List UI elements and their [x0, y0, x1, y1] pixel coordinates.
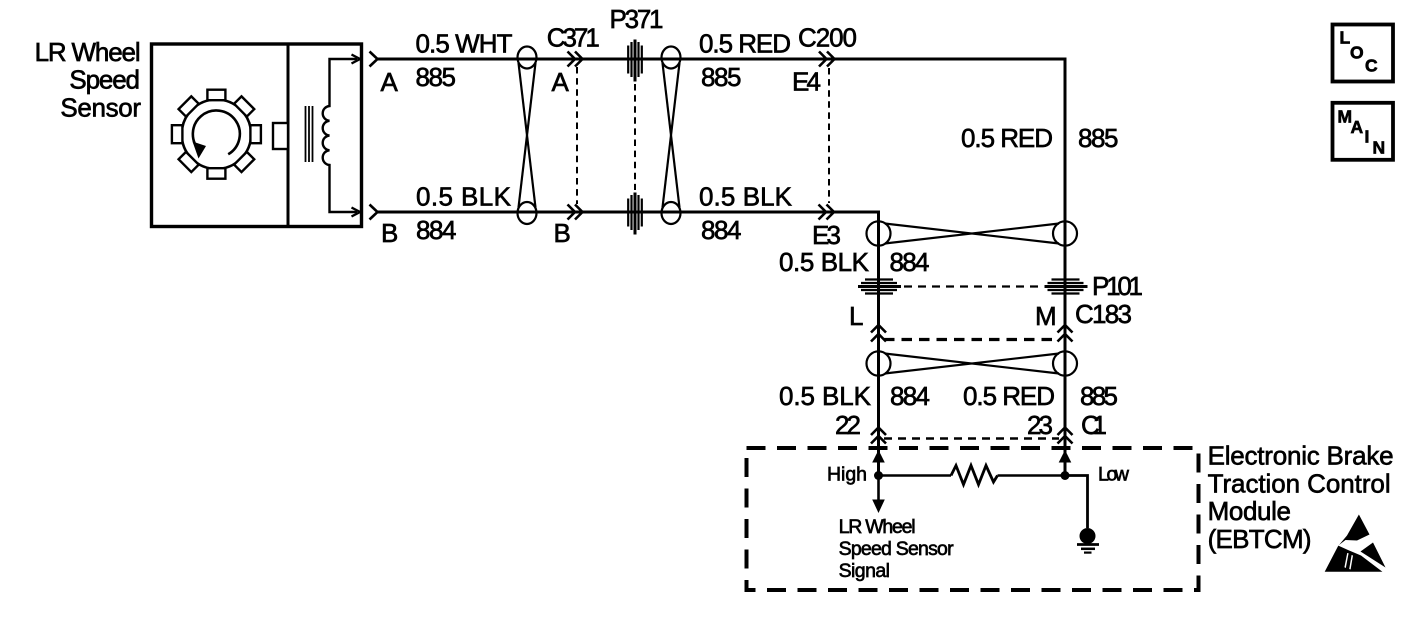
ESD symbol — [1325, 515, 1386, 572]
pickup rectangle — [273, 123, 288, 149]
node High junction dot — [874, 471, 883, 480]
svg-text:LR Wheel: LR Wheel — [839, 516, 916, 538]
wire Low to ground — [1065, 476, 1088, 529]
svg-text:I: I — [1365, 127, 1370, 147]
svg-text:22: 22 — [835, 410, 861, 440]
svg-text:LR Wheel: LR Wheel — [35, 37, 141, 67]
twisted pair symbol 3 (horizontal) — [867, 221, 1078, 245]
svg-text:A: A — [1351, 117, 1364, 137]
rotation arrow arc — [193, 111, 240, 155]
svg-text:0.5 BLK: 0.5 BLK — [699, 182, 793, 212]
svg-text:Sensor: Sensor — [60, 92, 141, 122]
svg-text:Signal: Signal — [839, 560, 890, 582]
chevron at sensor terminal B — [370, 205, 378, 220]
EBTCM dashed box — [747, 448, 1199, 590]
svg-text:Electronic Brake: Electronic Brake — [1208, 441, 1394, 471]
svg-text:885: 885 — [1080, 381, 1118, 411]
C1 dashed line — [884, 437, 1059, 439]
svg-text:885: 885 — [1078, 123, 1119, 153]
svg-text:High: High — [827, 464, 867, 486]
resistor R1 zigzag — [951, 466, 998, 485]
svg-text:(EBTCM): (EBTCM) — [1208, 524, 1312, 554]
connector C200 chevrons E3 — [819, 205, 835, 220]
svg-text:L: L — [849, 301, 863, 331]
svg-text:P371: P371 — [610, 4, 664, 34]
twisted pair symbol 2 — [662, 47, 681, 225]
twisted pair symbol 1 — [518, 47, 537, 225]
svg-text:884: 884 — [701, 215, 742, 245]
connector C371 chevrons wire A — [568, 52, 583, 67]
svg-text:0.5 RED: 0.5 RED — [963, 381, 1055, 411]
svg-text:884: 884 — [416, 215, 457, 245]
coil arrow bottom — [352, 208, 361, 217]
inline connector P371 on wire B — [628, 193, 642, 235]
arrow up pin 22 — [872, 450, 885, 463]
arrow up pin 23 — [1059, 450, 1072, 463]
svg-text:885: 885 — [416, 62, 457, 92]
svg-text:0.5 BLK: 0.5 BLK — [416, 182, 512, 212]
svg-text:M: M — [1035, 301, 1057, 331]
connector C183 chevrons M — [1058, 325, 1073, 342]
connector C1 chevrons pin 22 — [871, 428, 886, 444]
rotation arrowhead — [193, 142, 207, 159]
svg-text:A: A — [381, 67, 399, 97]
coil arrow top — [352, 55, 361, 64]
C183 dashed line — [884, 338, 1059, 341]
svg-text:C200: C200 — [798, 22, 857, 52]
connector C200 chevrons E4 — [819, 52, 835, 67]
svg-text:884: 884 — [890, 247, 930, 277]
inline connector P101 on wire 885 — [1045, 280, 1088, 294]
svg-text:Speed: Speed — [69, 65, 140, 95]
svg-text:B: B — [554, 218, 571, 248]
LOC box — [1333, 25, 1394, 82]
sensor box divider — [287, 44, 290, 227]
signal arrow down (LR Wheel Speed Sensor Signal) — [877, 476, 880, 506]
chevron at sensor terminal A — [370, 52, 378, 67]
connector C183 chevrons L — [871, 325, 886, 342]
svg-text:Low: Low — [1098, 464, 1130, 486]
svg-text:C183: C183 — [1075, 299, 1132, 329]
svg-text:E3: E3 — [812, 220, 841, 250]
svg-text:C: C — [1365, 56, 1378, 76]
tone ring gear body — [182, 100, 251, 169]
internal wire High to resistor — [879, 474, 952, 477]
svg-text:0.5 BLK: 0.5 BLK — [779, 381, 872, 411]
svg-text:C1: C1 — [1081, 410, 1107, 440]
inline connector P101 on wire 884 — [858, 280, 901, 294]
P101 dashed line — [904, 285, 1042, 287]
svg-text:C371: C371 — [547, 22, 600, 52]
svg-text:23: 23 — [1027, 410, 1053, 440]
svg-text:N: N — [1373, 138, 1386, 158]
svg-text:0.5 WHT: 0.5 WHT — [416, 29, 513, 59]
P371 dashed line — [634, 84, 636, 190]
internal wire resistor to Low — [998, 474, 1066, 477]
svg-text:Speed Sensor: Speed Sensor — [839, 538, 955, 560]
svg-text:0.5 BLK: 0.5 BLK — [779, 247, 870, 277]
svg-text:0.5 RED: 0.5 RED — [699, 29, 791, 59]
connector C200 dashed line — [828, 68, 830, 203]
inductor coil winding — [323, 59, 357, 212]
svg-text:P101: P101 — [1092, 271, 1143, 301]
connector C371 dashed line — [576, 67, 578, 204]
svg-text:Traction Control: Traction Control — [1208, 468, 1391, 498]
ground G1 — [1080, 528, 1096, 544]
connector C1 chevrons pin 23 — [1058, 428, 1073, 444]
svg-text:L: L — [1340, 28, 1351, 48]
core lines — [306, 106, 313, 162]
node Low junction dot — [1061, 471, 1070, 480]
svg-text:885: 885 — [701, 62, 742, 92]
inline connector P371 on wire A — [628, 40, 642, 82]
wire 885 (A): WHT/RED top run, corner down to EBTCM — [377, 59, 1065, 475]
svg-text:Module: Module — [1208, 496, 1291, 526]
sensor box U1 (LR Wheel Speed Sensor) — [152, 44, 362, 227]
svg-text:884: 884 — [890, 381, 930, 411]
svg-text:B: B — [381, 218, 398, 248]
twisted pair symbol 4 (horizontal) — [867, 351, 1078, 375]
gear teeth — [172, 90, 261, 179]
svg-text:E4: E4 — [792, 67, 821, 97]
svg-text:O: O — [1350, 43, 1364, 63]
svg-text:A: A — [552, 67, 570, 97]
connector C371 chevrons wire B — [568, 205, 583, 220]
svg-text:0.5 RED: 0.5 RED — [961, 123, 1053, 153]
MAIN box — [1333, 103, 1394, 160]
wire 884 (B): BLK bottom run, corner down — [377, 212, 879, 475]
